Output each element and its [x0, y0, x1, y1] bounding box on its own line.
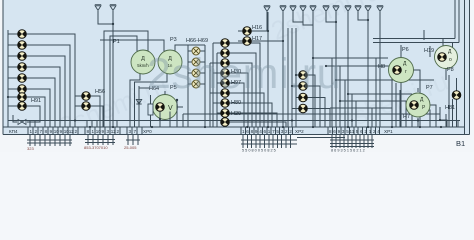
wire stub pins G1 [30, 121, 35, 128]
svg-text:6: 6 [360, 129, 363, 134]
svg-text:КП4: КП4 [9, 129, 18, 134]
svg-text:1: 1 [92, 129, 95, 134]
bundle XP0b [126, 135, 140, 146]
terminal arrow 12 [365, 6, 371, 12]
svg-text:323: 323 [27, 146, 34, 151]
right area verticals from band top [400, 110, 458, 127]
svg-text:9: 9 [338, 129, 341, 134]
wire P3 top right to ladder [175, 45, 188, 51]
svg-text:2: 2 [364, 129, 367, 134]
lamp H81 wires [449, 75, 457, 127]
bottom connector band borders [3, 127, 470, 135]
svg-text:ХР0: ХР0 [143, 129, 152, 134]
svg-text:2: 2 [75, 129, 78, 134]
right small lamp column (4 lamps) [299, 71, 308, 80]
gauge P1 speedometer [131, 50, 155, 74]
wire nest lamp3 [26, 56, 65, 127]
svg-text:6: 6 [264, 129, 267, 134]
wire from P1 top up-left [110, 36, 137, 127]
svg-text:H8: H8 [378, 64, 385, 70]
left lamp bus [7, 30, 9, 127]
resistor wires [150, 95, 152, 127]
wire voltmeter bottoms [160, 91, 170, 127]
bottom right nested corners [436, 105, 447, 127]
svg-text:ХР1: ХР1 [384, 129, 393, 134]
watermark 2shemi.ru [55, 0, 452, 141]
svg-text:2: 2 [289, 129, 292, 134]
svg-text:2shemi.ru: 2shemi.ru [147, 50, 341, 98]
terminal arrow 8 [323, 6, 329, 12]
svg-text:H81: H81 [445, 105, 455, 111]
svg-text:3: 3 [129, 129, 132, 134]
wires center lamp column left stubs [210, 43, 222, 127]
wire P3 bottom [135, 73, 168, 127]
wire nest lamp2 [26, 45, 70, 127]
svg-text:6: 6 [333, 129, 336, 134]
harness labels [27, 145, 137, 151]
svg-text:10: 10 [54, 129, 60, 134]
harness wires below band [27, 135, 374, 149]
frame right double border [465, 0, 470, 135]
svg-text:8: 8 [251, 129, 254, 134]
terminal arrow 13 [377, 6, 383, 12]
terminal arrow 5 [290, 6, 296, 12]
diode VD [136, 99, 141, 104]
lamps H16 H17 wires [238, 12, 283, 127]
svg-text:2: 2 [373, 129, 376, 134]
vertical bundle right of center [332, 58, 376, 127]
svg-text:5: 5 [276, 129, 279, 134]
pins KP4 [28, 127, 78, 135]
lamp column left (8 lamps) [18, 30, 27, 39]
svg-text:H19: H19 [424, 48, 434, 54]
terminal arrow 4 [280, 6, 286, 12]
lamp H69 [192, 80, 200, 88]
svg-text:853-3707010: 853-3707010 [84, 145, 108, 150]
wire lamp rows left stubs [8, 34, 18, 106]
buzzer symbol [18, 120, 26, 125]
wire nest lamp1 [26, 34, 75, 127]
svg-text:7: 7 [134, 129, 137, 134]
svg-text:H16: H16 [252, 25, 262, 31]
svg-text:6: 6 [246, 129, 249, 134]
lamp H17 [243, 37, 252, 46]
block B1 interior background [3, 0, 470, 135]
svg-text:3: 3 [281, 129, 284, 134]
lamp H20 [221, 109, 230, 118]
wire P3 top up [100, 40, 164, 51]
svg-text:P7: P7 [426, 85, 433, 91]
gauge P3 tachometer [158, 50, 182, 74]
lamp H56b [82, 102, 91, 111]
pins XP1 [328, 127, 380, 135]
wire nest lamp5 [26, 78, 55, 127]
svg-text:1: 1 [369, 129, 372, 134]
lamp H80 [221, 99, 230, 108]
pins XP2 [241, 127, 293, 135]
svg-text:P8: P8 [447, 67, 454, 73]
wire voltmeter right [177, 100, 183, 127]
gauge P6 fuel [389, 58, 414, 83]
svg-text:7: 7 [272, 129, 275, 134]
gauge P7 wires [406, 88, 436, 127]
svg-text:ХР2: ХР2 [295, 129, 304, 134]
svg-text:H7: H7 [403, 114, 410, 120]
wire loop lamp8 to buzzer [13, 106, 40, 122]
bundle KP4 [27, 135, 72, 147]
gauge P5 voltmeter [153, 95, 178, 120]
svg-text:9: 9 [50, 129, 53, 134]
svg-text:Д: Д [141, 56, 145, 62]
lamp H81 [452, 91, 461, 100]
svg-text:10: 10 [96, 129, 102, 134]
lamp H56a [82, 92, 91, 101]
svg-text:7: 7 [40, 129, 43, 134]
ladder rungs [188, 51, 205, 84]
terminal arrows mid wires [267, 12, 313, 31]
terminal arrow 1 [95, 5, 101, 11]
svg-text:9: 9 [60, 129, 63, 134]
wire long horizontal low [8, 120, 460, 122]
svg-text:P6: P6 [402, 47, 409, 53]
svg-text:1: 1 [30, 129, 33, 134]
right area vertical wires to band [392, 30, 446, 127]
horizontal wires to right gauges [313, 58, 440, 114]
center lamp column (9 lamps) [221, 39, 230, 48]
pins XP0 group b [127, 127, 142, 135]
svg-text:12: 12 [69, 129, 75, 134]
wire long horizontal mid [183, 114, 332, 127]
pins XP0 group a [85, 127, 120, 135]
svg-text:5: 5 [356, 129, 359, 134]
wire nest lamp4 [26, 67, 60, 127]
svg-text:5 5 0 8 0 0 5 0 8 2 5: 5 5 0 8 0 0 5 0 8 2 5 [242, 149, 276, 153]
svg-text:11: 11 [350, 129, 355, 134]
svg-text:25-005: 25-005 [124, 145, 137, 150]
terminal arrow 9 [333, 6, 339, 12]
bundle XP1 [330, 135, 374, 149]
svg-text:1: 1 [242, 129, 245, 134]
svg-text:H56: H56 [95, 89, 105, 95]
lamp H30 [221, 69, 230, 78]
lamp H97 [221, 79, 230, 88]
lamp H66 [192, 47, 200, 55]
fuel gauge P6 wires [401, 45, 420, 127]
terminal arrows top left pair wires [98, 11, 113, 127]
gauge P7 [406, 93, 430, 117]
svg-text:В1: В1 [456, 139, 465, 148]
svg-text:2: 2 [285, 129, 288, 134]
terminal arrow 2 [110, 5, 116, 11]
lamp H91 [18, 102, 27, 111]
svg-text:9: 9 [255, 129, 258, 134]
top arrow drop wires group [313, 12, 380, 127]
gauge P8 [435, 46, 458, 69]
right lamp pair column wires [288, 28, 330, 127]
svg-text:3: 3 [342, 129, 345, 134]
svg-text:9: 9 [102, 129, 105, 134]
terminal arrow 6 [300, 6, 306, 12]
svg-text:8: 8 [87, 129, 90, 134]
svg-text:4: 4 [377, 129, 380, 134]
svg-text:1: 1 [268, 129, 271, 134]
svg-text:8: 8 [329, 129, 332, 134]
svg-text:о: о [449, 57, 452, 63]
page background [0, 0, 474, 152]
svg-text:г: г [405, 69, 407, 75]
wire stubs G2 [87, 121, 117, 128]
lamp H56 wires [75, 96, 103, 127]
terminal arrow 7 [310, 6, 316, 12]
svg-text:P3: P3 [170, 37, 177, 43]
lamp H67 [192, 58, 200, 66]
wire P1 bottom down-left [130, 73, 140, 127]
svg-text:8: 8 [45, 129, 48, 134]
svg-text:2: 2 [117, 129, 120, 134]
terminal arrow 11 [355, 6, 361, 12]
svg-text:H80: H80 [231, 100, 241, 106]
svg-text:12: 12 [111, 129, 117, 134]
wire nest lamp6 [26, 89, 50, 127]
svg-text:3: 3 [107, 129, 110, 134]
svg-text:4: 4 [259, 129, 262, 134]
svg-text:H17: H17 [252, 36, 262, 42]
svg-text:H20: H20 [231, 111, 241, 117]
svg-text:H66-H69: H66-H69 [186, 38, 208, 44]
resistor R [148, 104, 153, 115]
wire from P1 top2 up-left [104, 31, 148, 127]
gauge P8 wires top [373, 0, 459, 49]
frame left border [2, 0, 4, 135]
connector band pin ticks and numbers [28, 127, 380, 135]
terminal arrow 10 [345, 6, 351, 12]
illumination ladder rails [188, 45, 205, 127]
bundle XP0a [85, 135, 115, 146]
lamp H16 [243, 27, 252, 36]
svg-text:H91: H91 [31, 98, 41, 104]
wires center lamp column right fanout [229, 43, 286, 127]
bundle XP2 [241, 135, 345, 149]
svg-text:8 6 9 3 5 1 5 6 2 1 2: 8 6 9 3 5 1 5 6 2 1 2 [331, 149, 365, 153]
terminal arrow 3 [264, 6, 270, 12]
svg-text:2: 2 [35, 129, 38, 134]
lamp H68 [192, 69, 200, 77]
svg-text:P1: P1 [113, 39, 120, 45]
diode wire [139, 86, 150, 127]
wire lamp H91 row [26, 97, 45, 127]
svg-text:V: V [168, 105, 173, 112]
